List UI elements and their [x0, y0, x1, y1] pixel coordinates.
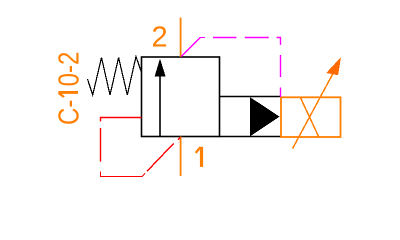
svg-text:0-2: 0-2	[52, 52, 85, 87]
pilot line (red) bottom corner + horizontal + tick	[101, 171, 146, 176]
svg-text:2: 2	[152, 21, 168, 53]
pilot line (red) diagonal end tick	[178, 138, 180, 140]
pilot line (red) left vertical dash	[100, 128, 102, 162]
port 2 line	[180, 18, 182, 57]
pilot line (red) diagonal dash	[147, 143, 174, 171]
flow arrow head	[155, 59, 166, 77]
pilot line (magenta) horizontal dash 2	[245, 37, 269, 39]
label C-10-2	[52, 52, 85, 125]
pilot line (magenta) horizontal dash 1	[213, 37, 236, 39]
adjust arrow head	[326, 57, 341, 75]
pilot line (red) top horizontal + corner	[101, 118, 142, 122]
orifice box	[281, 97, 341, 137]
orifice X diagonal	[300, 97, 319, 137]
pilot line (magenta) vertical end piece	[280, 88, 282, 98]
check valve channel bottom line	[220, 136, 281, 138]
spring	[88, 57, 142, 96]
port 1 line	[180, 137, 182, 177]
port label 1	[196, 147, 202, 167]
svg-text:C-: C-	[52, 100, 85, 125]
adjust arrow shaft	[293, 67, 337, 149]
flow arrow shaft	[159, 72, 161, 137]
check valve channel top line	[220, 96, 281, 98]
check valve triangle	[250, 97, 280, 136]
pilot line (magenta) vertical dash	[280, 55, 282, 77]
pilot line (magenta) diagonal from port2 junction	[181, 38, 205, 57]
valve body square	[142, 57, 220, 137]
pilot line (magenta) corner piece	[277, 38, 281, 45]
